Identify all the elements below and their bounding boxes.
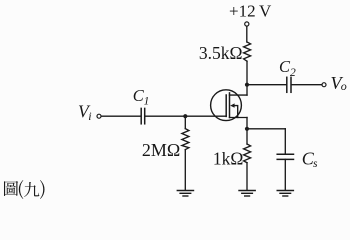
svg-text:i: i — [88, 109, 91, 123]
svg-text:1kΩ: 1kΩ — [213, 148, 244, 168]
wire R1 bottom to drain node and into drain lead — [246, 61, 248, 95]
transistor Q1 body lead with arrow — [234, 106, 238, 118]
svg-text:2MΩ: 2MΩ — [142, 140, 180, 160]
junction drain node dot — [245, 83, 249, 87]
wire RG bottom to ground — [184, 150, 186, 191]
wire gate node down to RG top — [184, 116, 186, 128]
ground symbol under Cs — [277, 191, 293, 197]
ground symbol under RG — [177, 191, 193, 197]
ground symbol under RS — [239, 191, 255, 197]
wire C2 to Vo terminal — [292, 84, 322, 86]
wire source node to Cs branch — [247, 128, 285, 130]
junction source node dot — [245, 127, 249, 131]
svg-text:o: o — [341, 79, 347, 93]
svg-text:s: s — [313, 158, 318, 170]
transistor Q1 body arrowhead — [230, 103, 234, 107]
wire RS bottom to ground — [246, 163, 248, 191]
resistor RG 2M zigzag — [182, 129, 189, 150]
svg-text:+12 V: +12 V — [229, 1, 272, 20]
transistor Q1 gate bar — [225, 95, 227, 116]
transistor Q1 circle envelope — [211, 90, 242, 121]
resistor RS 1k zigzag — [244, 144, 251, 163]
svg-text:3.5kΩ: 3.5kΩ — [199, 43, 243, 63]
junction gate node dot — [183, 114, 187, 118]
node Vo output terminal — [322, 83, 326, 87]
node Vi input terminal — [97, 114, 101, 118]
transistor Q1 channel bar — [229, 93, 231, 118]
wire source lead down to source node — [246, 118, 248, 145]
wire supply terminal to R1 top — [246, 26, 248, 42]
wire drain node to C2 — [247, 84, 286, 86]
svg-text:2: 2 — [290, 67, 296, 79]
transistor Q1 drain lead — [230, 94, 248, 96]
wire Cs bottom plate to ground — [284, 159, 286, 190]
transistor Q1 source lead — [230, 117, 248, 119]
svg-text:1: 1 — [144, 95, 150, 107]
wire Vi terminal to C1 — [101, 115, 140, 117]
wire C1 to gate — [146, 115, 227, 117]
wire Cs branch down to Cs top plate — [284, 129, 286, 154]
capacitor C1 plates — [140, 108, 142, 123]
capacitor Cs plates — [277, 153, 293, 155]
capacitor C2 plates — [286, 77, 288, 92]
resistor RD 3.5k zigzag — [244, 42, 251, 61]
node +12V supply terminal — [245, 22, 249, 26]
caption figure (nine) — [4, 180, 45, 199]
